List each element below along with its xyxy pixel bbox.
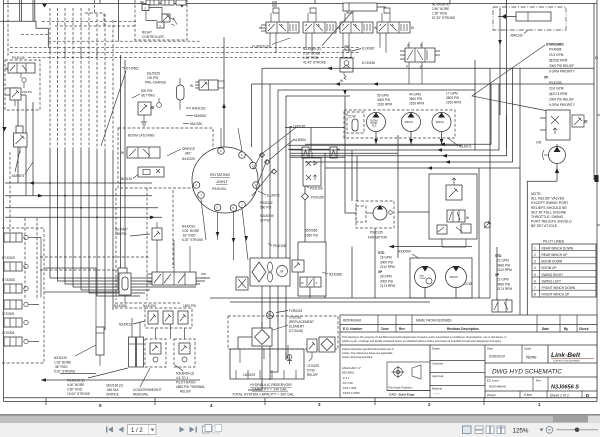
- text 44 GPM: [409, 93, 424, 106]
- svg-text:P9J0108: P9J0108: [273, 244, 286, 248]
- svg-text:M: M: [281, 270, 284, 274]
- bundle elbow 3: [65, 268, 200, 284]
- svg-text:R057406042: R057406042: [343, 319, 361, 323]
- svg-text:STD: STD: [495, 254, 502, 258]
- svg-text:@2532 RPM: @2532 RPM: [549, 59, 568, 63]
- svg-text:5.25" STROKE: 5.25" STROKE: [182, 238, 203, 242]
- label DTJ0561: [122, 67, 139, 71]
- svg-text:N4J0225: N4J0225: [182, 157, 195, 161]
- svg-text:Unless otherwise specified dim: Unless otherwise specified dimensions ar…: [342, 347, 394, 351]
- pump drop arrows: [374, 139, 378, 144]
- bundle elbow 5: [81, 274, 150, 290]
- svg-text:RIGHT: RIGHT: [142, 31, 152, 35]
- case drain h246: [352, 245, 472, 298]
- svg-text:41.43" STROKE: 41.43" STROKE: [303, 61, 326, 65]
- top small valves WL row: [140, 0, 186, 5]
- svg-text:W: W: [374, 26, 377, 30]
- zoom slider knob: [575, 428, 580, 433]
- right controller box: [135, 0, 187, 40]
- valve bank V3 pilots: [345, 8, 353, 22]
- svg-text:J8J0130: J8J0130: [120, 177, 132, 181]
- svg-text:W: W: [259, 26, 262, 30]
- svg-text:BOOM UP: BOOM UP: [542, 266, 557, 270]
- label P9J0135 FAN MOTOR: [368, 231, 388, 240]
- rev header texts: [343, 327, 589, 331]
- svg-text:PRE-CHARGE: PRE-CHARGE: [145, 81, 166, 85]
- svg-text:P9J0165: P9J0165: [311, 196, 324, 200]
- svg-text:17J0309: 17J0309: [2, 312, 14, 316]
- left column module C: [4, 284, 28, 293]
- svg-text:3490 PSI: 3490 PSI: [497, 282, 510, 286]
- port 3r: [253, 182, 260, 189]
- return bus h298: [210, 297, 490, 299]
- toolbar background: [0, 423, 600, 437]
- text 55 GPM: [377, 94, 392, 107]
- port 4a: [218, 148, 225, 155]
- btn next page: [180, 427, 185, 433]
- svg-text:This drawing is the property o: This drawing is the property of Link-Bel…: [342, 335, 507, 339]
- EO level row: [485, 377, 597, 391]
- svg-text:STANDARD: STANDARD: [546, 43, 564, 47]
- svg-text:125%: 125%: [513, 427, 529, 434]
- label F1J0079 (2): [252, 38, 290, 49]
- pump CW drop: [527, 164, 559, 316]
- svg-text:E1J0387: E1J0387: [362, 47, 375, 51]
- svg-text:TILS: TILS: [372, 126, 377, 128]
- left column dashed frame: [2, 228, 44, 363]
- wire v506: [506, 0, 508, 148]
- svg-text:REAR WINCH DOWN: REAR WINCH DOWN: [542, 246, 574, 250]
- aux box X left of cooler: [236, 277, 248, 290]
- text E&J0229: [145, 72, 166, 85]
- svg-text:None: None: [526, 355, 537, 360]
- accumulator N3J0286: [119, 273, 131, 303]
- svg-text:Scale: Scale: [524, 347, 531, 351]
- corner stair wire: [0, 0, 48, 48]
- leader STANDARD to priority valve: [472, 45, 553, 112]
- gauge circle: [157, 98, 162, 107]
- fan feed v352: [351, 150, 353, 201]
- CCW box: [347, 112, 364, 133]
- dash-dot drop v173: [172, 190, 174, 268]
- svg-text:N4J0033: N4J0033: [182, 225, 195, 229]
- return wire B: [290, 84, 499, 152]
- pump group enclosure: [344, 110, 455, 138]
- svg-text:Weight: Weight: [487, 393, 496, 397]
- suction h149: [288, 148, 340, 150]
- zone tick bottom 3: [264, 398, 266, 405]
- reservoir dashed enclosure: [228, 316, 338, 349]
- svg-text:L8J0185: L8J0185: [293, 125, 305, 129]
- svg-text:19.00" STROKE: 19.00" STROKE: [67, 392, 90, 396]
- tolerance text: [342, 347, 394, 359]
- main bus h68: [262, 67, 594, 69]
- motor B winch: [446, 266, 467, 288]
- bundle elbow 2: [58, 262, 206, 281]
- text N3U8464: [175, 365, 205, 394]
- svg-text:MADE FROM N3J0636D.: MADE FROM N3J0636D.: [416, 319, 452, 323]
- label ORIFICE .040: [167, 147, 195, 161]
- svg-text:(REPLACEMENT: (REPLACEMENT: [289, 320, 314, 324]
- svg-text:R057406042: R057406042: [489, 385, 507, 389]
- svg-text:N3J0618 (2): N3J0618 (2): [67, 379, 85, 383]
- svg-text:5 PSI: 5 PSI: [307, 369, 315, 373]
- svg-text:4: 4: [534, 266, 536, 270]
- left links: [33, 238, 41, 342]
- pilot line v7: [96, 14, 98, 150]
- cross dashed h2: [10, 52, 360, 54]
- svg-text:CCW: CCW: [464, 282, 472, 286]
- CAD row: [387, 391, 430, 397]
- counterbalance box left: [145, 339, 166, 367]
- h wire 153: [290, 152, 398, 154]
- svg-text:SET AT FULL ENGINE: SET AT FULL ENGINE: [531, 210, 567, 214]
- label 1500 PSI: [183, 304, 196, 308]
- small valve above rev table: [492, 298, 512, 312]
- UI-BARS: [0, 414, 600, 437]
- text 36J2166: [106, 384, 123, 397]
- svg-text:P9J0086: P9J0086: [549, 48, 562, 52]
- svg-text:3490 PSI: 3490 PSI: [497, 263, 510, 267]
- wire v475: [474, 60, 476, 150]
- label 65J0575: [12, 162, 33, 178]
- svg-text:BOOM DOWN: BOOM DOWN: [542, 260, 563, 264]
- svg-text:Third Angle Projection: Third Angle Projection: [388, 387, 413, 390]
- svg-text:3500 PSI: 3500 PSI: [446, 96, 459, 100]
- svg-text:22 GPM: 22 GPM: [497, 278, 509, 282]
- text 17 GPM: [446, 92, 461, 105]
- P9J0166 feed stub: [310, 128, 312, 153]
- signature rows: [430, 347, 485, 396]
- label N4J8354: [293, 138, 306, 142]
- svg-text:.XXX ±.003: .XXX ±.003: [342, 386, 357, 390]
- wire v345: [345, 96, 356, 213]
- scrollbar corner: [588, 416, 600, 423]
- label P9J0152 580 PSI: [260, 201, 273, 210]
- check valve on suction: [302, 147, 309, 158]
- label N3J0286 low: [114, 304, 127, 308]
- svg-text:N4J0193: N4J0193: [143, 304, 156, 308]
- counterbalance box right: [174, 339, 195, 367]
- left dashed v16: [24, 218, 26, 300]
- port 5a: [230, 205, 237, 212]
- svg-text:ORIFICE: ORIFICE: [182, 147, 195, 151]
- svg-text:@2174 RPM: @2174 RPM: [549, 92, 568, 96]
- svg-text:PILOT RATIO: PILOT RATIO: [176, 381, 196, 385]
- pilot square E1J0387: [343, 46, 351, 58]
- label N3J0069: [303, 12, 352, 65]
- svg-text:D7J0438: D7J0438: [362, 61, 375, 65]
- valve block ABPE: [400, 42, 440, 84]
- text N3J0219: [54, 345, 96, 374]
- top elbow wires: [5, 87, 18, 89]
- svg-text:280 PSI: 280 PSI: [115, 232, 126, 236]
- check valve D7J0438: [340, 58, 353, 72]
- wire v490: [489, 68, 491, 298]
- pilot lines table: [532, 240, 596, 298]
- valve bank V1 body: [259, 22, 299, 33]
- svg-text:F1J0079 (2): F1J0079 (2): [252, 45, 269, 49]
- port drop arrows: [232, 238, 236, 243]
- pump SWING: [432, 113, 451, 132]
- bus h90: [278, 89, 475, 91]
- svg-text:3: 3: [534, 260, 536, 264]
- svg-text:44 GPM: 44 GPM: [409, 93, 421, 97]
- BOTTOM-SCHEMATIC: [41, 188, 512, 397]
- svg-text:5: 5: [534, 273, 536, 277]
- title block outer: [340, 315, 597, 398]
- btn new window 1: [203, 425, 212, 434]
- main bus v251: [251, 84, 253, 147]
- joint top feeds: [221, 128, 242, 151]
- svg-text:20 PSI: 20 PSI: [260, 219, 270, 223]
- svg-text:6: 6: [534, 279, 536, 283]
- svg-text:SWING RIGHT: SWING RIGHT: [542, 273, 564, 277]
- svg-text:DTJ0148): DTJ0148): [289, 329, 303, 333]
- svg-text:N3J0069 (4): N3J0069 (4): [303, 47, 321, 51]
- filter diamond right: [319, 337, 335, 352]
- svg-text:2000 PSI RELIEF: 2000 PSI RELIEF: [549, 98, 574, 102]
- date scale row: [485, 345, 597, 363]
- label 65J1330: [183, 122, 202, 126]
- pilot line v1: [49, 8, 51, 150]
- motor drops: [425, 288, 456, 299]
- valve bank V4 body: [377, 22, 414, 33]
- label N2U0399 20 PSI: [260, 214, 274, 223]
- svg-text:PORT RELIEFS SHOULD: PORT RELIEFS SHOULD: [531, 220, 572, 224]
- svg-text:BOOM LATCHING: BOOM LATCHING: [128, 134, 155, 138]
- zone tick bottom 4: [374, 398, 376, 405]
- svg-text:P9J0135: P9J0135: [370, 231, 383, 235]
- svg-text:N3J0286: N3J0286: [329, 273, 342, 277]
- port 3l: [193, 182, 200, 189]
- port 2: [250, 162, 257, 169]
- svg-text:------: ------: [434, 391, 440, 395]
- legal divider: [340, 344, 597, 346]
- sheet border right: [596, 0, 598, 402]
- svg-text:Date: Date: [542, 327, 549, 331]
- svg-text:Checked: Checked: [432, 362, 443, 366]
- svg-text:E.O. Number: E.O. Number: [343, 327, 363, 331]
- svg-text:.XXXX ±.0005: .XXXX ±.0005: [342, 391, 360, 395]
- label N4U0152: [186, 107, 206, 111]
- label E1J0075: [258, 191, 280, 198]
- svg-text:Zone: Zone: [381, 327, 389, 331]
- svg-text:WL: WL: [140, 1, 145, 5]
- check diamond P9J0165: [302, 193, 309, 200]
- svg-text:C: C: [595, 55, 598, 60]
- svg-text:DECIMAL: DECIMAL: [342, 371, 355, 375]
- branch h at 183: [5, 182, 152, 184]
- page number box: [128, 425, 157, 435]
- label J6A0133: [510, 30, 528, 38]
- svg-text:SWING LEFT: SWING LEFT: [542, 279, 562, 283]
- label RIGHT CONTROLLER: [142, 31, 164, 40]
- cylinder N3J0219: [96, 327, 104, 366]
- suction h145: [288, 144, 462, 146]
- svg-text:P9J0166: P9J0166: [310, 187, 323, 191]
- svg-text:23.6 GPM: 23.6 GPM: [549, 87, 564, 91]
- left wire v13: [25, 95, 27, 196]
- bottom row weight sheet: [487, 391, 590, 398]
- DWG title: [485, 369, 597, 378]
- text NOTE block: [531, 192, 572, 228]
- svg-text:unless otherwise specified.: unless otherwise specified.: [342, 355, 373, 359]
- svg-text:36J2166 (2): 36J2166 (2): [106, 384, 123, 388]
- left column module A: [4, 233, 33, 242]
- bundle top taps: [49, 48, 51, 53]
- vent circle: [267, 312, 274, 319]
- svg-text:CAD - Solid Edge: CAD - Solid Edge: [389, 393, 415, 397]
- leaders from ports up-right: [263, 128, 296, 154]
- valve bank V2 pilots: [308, 8, 316, 22]
- return wire E: [325, 68, 520, 170]
- dashed h303: [115, 302, 180, 304]
- svg-text:RELIEF: RELIEF: [180, 390, 191, 394]
- svg-text:SWING: SWING: [436, 121, 445, 124]
- feeder v10: [120, 55, 122, 292]
- fan motor shaft circle: [389, 211, 393, 215]
- reservoir tank: [230, 345, 304, 379]
- priority valve assembly right: [540, 110, 587, 140]
- label N4J0033: [182, 225, 203, 243]
- left dashed v17: [36, 218, 38, 300]
- svg-text:3000 PSI: 3000 PSI: [380, 279, 393, 283]
- svg-text:4.5 TO 1: 4.5 TO 1: [176, 376, 189, 380]
- port 5b: [214, 204, 221, 211]
- svg-text:F2J0281: F2J0281: [289, 316, 302, 320]
- motor A tandem: [415, 266, 436, 288]
- LEFT-PILOT-BUNDLE: [0, 0, 386, 330]
- label P9J0166: [306, 186, 323, 191]
- fold mark arrow left: [42, 4, 47, 8]
- svg-text:2160 RPM: 2160 RPM: [446, 101, 461, 105]
- motor enclosure: [410, 258, 472, 298]
- svg-text:.046 DIA.: .046 DIA.: [106, 388, 119, 392]
- svg-text:W: W: [411, 26, 414, 30]
- svg-text:2160 RPM: 2160 RPM: [377, 103, 392, 107]
- svg-text:ANGULAR ± 1°: ANGULAR ± 1°: [342, 366, 361, 370]
- return h373: [60, 373, 96, 375]
- bundle elbow 4: [73, 268, 196, 287]
- corner dashed h34: [21, 34, 48, 36]
- corner dashed v8: [7, 0, 9, 57]
- label N3J0071: [448, 138, 472, 149]
- svg-text:WINCH: WINCH: [450, 276, 459, 279]
- bundle elbow 6: [89, 274, 145, 293]
- LEFT-COMPONENTS: [2, 0, 306, 363]
- svg-text:W: W: [121, 151, 124, 155]
- valve bank V1 pilots: [271, 2, 279, 22]
- svg-text:1500 PSI: 1500 PSI: [183, 304, 196, 308]
- relief J7J0225: [307, 339, 317, 361]
- svg-text:55 GPM: 55 GPM: [377, 94, 389, 98]
- svg-text:THROTTLE: SWING: THROTTLE: SWING: [531, 215, 564, 219]
- legal text: [342, 335, 507, 343]
- svg-text:CCW: CCW: [348, 115, 356, 119]
- svg-text:4580 PSI THERMAL: 4580 PSI THERMAL: [176, 385, 205, 389]
- svg-text:0 lbm: 0 lbm: [524, 393, 532, 397]
- left dashed v15: [9, 152, 11, 232]
- junction dots: [49, 182, 51, 184]
- svg-text:.X ±.1: .X ±.1: [342, 376, 350, 380]
- relief valve N3J0407: [152, 222, 162, 247]
- svg-text:9 GPM PRIORITY: 9 GPM PRIORITY: [549, 70, 576, 74]
- return h380: [41, 378, 200, 382]
- svg-text:.38" ROD: .38" ROD: [54, 365, 68, 369]
- svg-text:2174 RPM: 2174 RPM: [380, 284, 395, 288]
- arrow on h84: [373, 82, 378, 86]
- check valve small: [287, 355, 292, 365]
- zone marker right: [595, 175, 599, 182]
- svg-text:N3J0407: N3J0407: [115, 228, 128, 232]
- svg-text:N3U8464 (2): N3U8464 (2): [176, 372, 194, 376]
- svg-text:BE SET AT IDLE.: BE SET AT IDLE.: [531, 224, 558, 228]
- valve trio N3J0612: [145, 308, 192, 328]
- P9J0149 assembly: [5, 56, 40, 110]
- svg-text:3500 PSI: 3500 PSI: [409, 97, 422, 101]
- valve bank V2 body: [303, 22, 340, 33]
- revision row1 line: [340, 324, 597, 326]
- filter small: [118, 268, 127, 290]
- svg-text:STD: STD: [378, 251, 385, 255]
- svg-text:FRONT WINCH UP: FRONT WINCH UP: [542, 293, 570, 297]
- feeder v11: [124, 60, 126, 292]
- svg-text:REAR WINCH UP: REAR WINCH UP: [542, 253, 568, 257]
- h wire 157: [290, 156, 345, 158]
- TITLE-BLOCK: [340, 315, 597, 398]
- svg-text:.XX ±.06: .XX ±.06: [342, 381, 353, 385]
- svg-text:3000 PSI: 3000 PSI: [380, 260, 393, 264]
- return bus h302: [230, 301, 430, 303]
- wxz enclosure rect: [298, 242, 326, 296]
- pump drops: [376, 132, 442, 146]
- svg-text:17J0308: 17J0308: [2, 331, 14, 335]
- zone ticks top: [100, 0, 450, 4]
- corner dashed h21: [42, 20, 136, 22]
- revision row2 line: [340, 331, 597, 333]
- svg-text:DWG HYD SCHEMATIC: DWG HYD SCHEMATIC: [492, 369, 562, 376]
- svg-text:2160 RPM: 2160 RPM: [409, 102, 424, 106]
- fan box drop: [374, 228, 376, 298]
- port 4b: [239, 152, 246, 159]
- bundle elbow 7: [97, 280, 140, 296]
- left column module E: [4, 318, 28, 327]
- svg-text:Sheet 1 of 2: Sheet 1 of 2: [550, 393, 569, 397]
- text COUNTERWEIGHT REMOVAL: [133, 368, 162, 397]
- left wire v14: [32, 102, 34, 196]
- text STD 26 GPM: [378, 251, 395, 288]
- svg-text:EO Level: EO Level: [487, 379, 499, 383]
- svg-text:By: By: [564, 327, 568, 331]
- label 65J8530: [186, 114, 206, 118]
- svg-text:Check: Check: [579, 327, 589, 331]
- svg-text:1500 PSI: 1500 PSI: [22, 91, 32, 94]
- orifice valve: [121, 147, 160, 158]
- arrow 196: [38, 194, 43, 198]
- main bus v278: [277, 90, 279, 372]
- label N3J0500: [398, 250, 420, 260]
- cylinder J6A0133 box: [493, 7, 566, 30]
- branch h at 208: [5, 207, 158, 209]
- svg-text:65J1330: 65J1330: [190, 122, 202, 126]
- left column module B: [4, 262, 28, 271]
- label NLJ0058: [432, 3, 455, 21]
- pump BOOM HOIST: [367, 113, 386, 132]
- label N4J0193: [143, 304, 156, 308]
- pilot line v3: [64, 8, 66, 150]
- layout icon book: [497, 426, 505, 434]
